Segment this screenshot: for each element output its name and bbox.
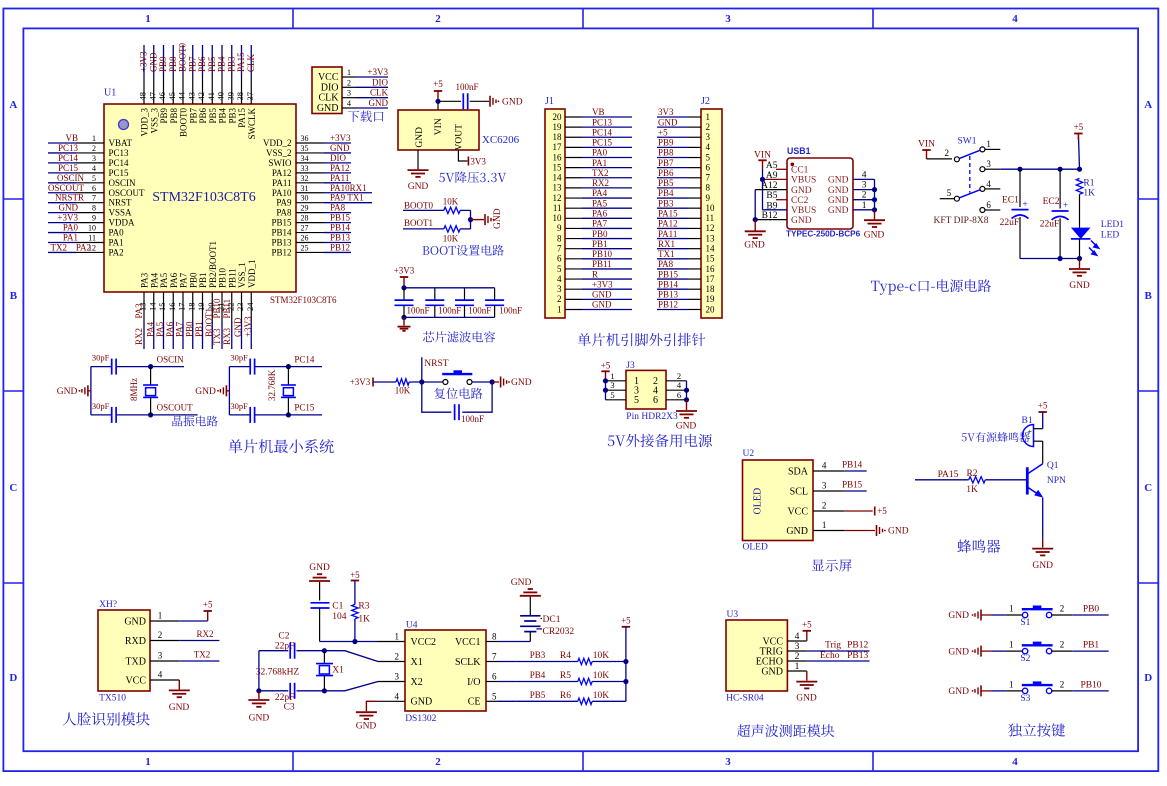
svg-text:LED: LED [1101,230,1120,240]
svg-text:+5: +5 [877,506,887,516]
svg-text:18: 18 [706,284,716,294]
svg-text:+5: +5 [203,600,213,610]
svg-text:PC14: PC14 [109,158,130,168]
svg-text:6: 6 [492,672,497,682]
svg-text:2: 2 [347,78,351,87]
svg-text:VDDA: VDDA [109,218,135,228]
svg-text:PB0: PB0 [184,321,194,337]
svg-text:1K: 1K [1083,188,1095,198]
svg-text:GND: GND [511,578,532,588]
svg-text:OLED: OLED [743,543,768,553]
svg-text:GND: GND [948,687,969,697]
svg-text:11: 11 [706,213,715,223]
svg-text:4: 4 [706,142,711,152]
svg-text:PC13: PC13 [109,148,130,158]
svg-text:GND: GND [330,143,350,153]
svg-text:TX510: TX510 [99,694,126,704]
svg-text:+5: +5 [601,361,611,371]
svg-text:26: 26 [301,234,309,243]
svg-text:2: 2 [557,294,562,304]
svg-text:GND: GND [233,317,243,337]
svg-text:30pF: 30pF [230,353,248,363]
svg-text:1: 1 [1009,640,1014,650]
svg-text:PB5: PB5 [207,56,217,72]
svg-text:+5: +5 [350,570,360,580]
svg-text:4: 4 [158,670,163,680]
svg-text:3: 3 [725,13,731,25]
svg-text:TX2: TX2 [51,242,68,252]
svg-text:3: 3 [822,481,827,491]
svg-text:RX1: RX1 [658,239,675,249]
svg-text:GND: GND [317,103,339,114]
svg-text:8MHz: 8MHz [129,378,139,401]
svg-text:U3: U3 [727,610,739,620]
svg-text:PB13: PB13 [658,290,679,300]
svg-text:GND: GND [744,241,765,251]
svg-text:10K: 10K [593,651,610,661]
svg-text:6: 6 [557,254,562,264]
svg-text:PB1: PB1 [1083,641,1100,651]
svg-text:GND: GND [658,117,678,127]
svg-text:1K: 1K [358,615,370,625]
svg-text:PB0: PB0 [188,272,198,288]
svg-text:30pF: 30pF [230,401,248,411]
svg-text:14: 14 [553,173,563,183]
svg-text:5: 5 [557,264,562,274]
svg-text:PB14: PB14 [658,279,679,289]
svg-text:PB11: PB11 [592,259,612,269]
svg-text:XC6206: XC6206 [482,134,520,146]
svg-text:+5: +5 [1038,401,1048,411]
svg-text:BOOT1: BOOT1 [404,218,433,228]
svg-text:PB15: PB15 [658,269,679,279]
svg-text:19: 19 [553,122,563,132]
svg-text:VOUT: VOUT [455,124,465,151]
svg-text:6: 6 [653,395,658,406]
svg-text:2: 2 [822,501,827,511]
svg-text:3: 3 [862,181,867,191]
svg-text:CC2: CC2 [791,196,809,206]
svg-text:U2: U2 [743,449,755,459]
svg-text:KFT DIP-8X8: KFT DIP-8X8 [934,216,989,226]
svg-text:VBAT: VBAT [109,138,133,148]
svg-text:GND: GND [1069,281,1090,291]
svg-text:XH?: XH? [99,600,117,610]
svg-text:6: 6 [986,200,991,210]
svg-text:PB10: PB10 [592,249,613,259]
svg-text:GND: GND [828,186,849,196]
svg-text:48: 48 [138,92,148,101]
svg-text:OSCIN: OSCIN [57,173,85,183]
svg-text:U1: U1 [104,88,116,99]
svg-text:NPN: NPN [1047,476,1066,486]
svg-text:2: 2 [1060,679,1065,689]
svg-text:4: 4 [1012,756,1018,768]
svg-text:C: C [1144,482,1152,494]
svg-text:30pF: 30pF [92,353,110,363]
svg-text:GND: GND [57,387,78,397]
svg-text:47: 47 [147,92,157,101]
svg-text:PB10: PB10 [218,267,228,288]
svg-text:24: 24 [245,302,255,311]
svg-text:PB5: PB5 [530,690,546,700]
svg-text:1: 1 [986,139,991,149]
svg-text:X2: X2 [411,677,423,688]
svg-text:DIO: DIO [330,153,346,163]
svg-text:DC1: DC1 [543,615,561,625]
svg-text:CR2032: CR2032 [543,627,575,637]
svg-text:S2: S2 [1020,654,1030,664]
svg-text:4: 4 [92,164,96,173]
svg-text:PA5: PA5 [159,272,169,288]
svg-text:RX3: RX3 [222,327,232,345]
svg-text:SW1: SW1 [958,137,977,147]
svg-text:VCC: VCC [787,506,808,517]
svg-text:CLK: CLK [246,53,256,72]
svg-text:PC14: PC14 [294,354,315,364]
svg-text:PB13: PB13 [330,233,351,243]
svg-text:10: 10 [706,203,716,213]
svg-text:100nF: 100nF [468,305,491,315]
svg-text:GND: GND [796,694,817,704]
svg-text:PA12: PA12 [272,168,292,178]
svg-text:40: 40 [216,92,226,101]
svg-text:VIN: VIN [434,118,444,135]
svg-text:VCC2: VCC2 [411,637,437,648]
svg-text:PC15: PC15 [294,403,315,413]
svg-text:GND: GND [888,527,909,537]
svg-text:7: 7 [92,194,96,203]
svg-text:PB12: PB12 [271,247,291,257]
svg-text:PA3: PA3 [140,272,150,288]
svg-text:+3V3: +3V3 [592,279,613,289]
svg-text:22uF: 22uF [1000,218,1020,228]
svg-text:PB3: PB3 [530,650,546,660]
svg-text:PA0: PA0 [63,223,79,233]
svg-text:22uF: 22uF [1040,220,1060,230]
svg-text:1: 1 [395,632,400,642]
svg-text:7: 7 [492,652,497,662]
svg-text:10K: 10K [395,386,411,396]
svg-text:4: 4 [395,691,400,701]
svg-text:41: 41 [206,92,216,101]
svg-text:15: 15 [553,162,563,172]
svg-text:PB15: PB15 [271,218,292,228]
svg-text:5: 5 [492,691,497,701]
svg-text:D: D [1144,672,1152,684]
svg-text:PC15: PC15 [109,168,130,178]
svg-text:GND: GND [761,666,783,677]
svg-text:11: 11 [88,234,96,243]
svg-text:30pF: 30pF [92,401,110,411]
svg-text:PA0: PA0 [592,148,608,158]
svg-text:GND: GND [676,422,697,432]
svg-text:GND: GND [408,182,429,192]
svg-text:4: 4 [557,274,562,284]
svg-text:PB6: PB6 [197,56,207,72]
svg-text:NRSTR: NRSTR [55,193,84,203]
svg-text:OSCOUT: OSCOUT [109,188,146,198]
svg-text:3V3: 3V3 [658,107,674,117]
svg-text:+3V3: +3V3 [330,133,351,143]
svg-text:GND: GND [828,176,849,186]
svg-text:PA5: PA5 [155,321,165,337]
svg-text:TX2: TX2 [592,168,609,178]
svg-text:GND: GND [493,208,503,229]
svg-text:PA9: PA9 [276,198,292,208]
svg-text:6: 6 [92,184,96,193]
svg-text:17: 17 [553,142,563,152]
svg-text:PC13: PC13 [58,143,79,153]
svg-text:+3V3: +3V3 [243,316,253,337]
svg-text:STM32F103C8T6: STM32F103C8T6 [152,190,255,205]
svg-text:PA6: PA6 [169,272,179,288]
svg-text:1: 1 [822,520,827,530]
svg-text:12: 12 [553,193,562,203]
svg-text:2: 2 [862,191,867,201]
svg-text:PB5: PB5 [208,108,218,124]
svg-text:+5: +5 [433,79,443,89]
svg-text:GND: GND [786,526,808,537]
svg-text:34: 34 [301,154,309,163]
svg-text:9: 9 [557,223,562,233]
svg-text:10K: 10K [443,234,459,244]
svg-text:45: 45 [167,92,177,101]
svg-text:GND: GND [195,387,216,397]
svg-text:37: 37 [245,92,255,101]
svg-text:PB12: PB12 [658,300,678,310]
svg-text:B: B [10,290,18,302]
svg-text:+5: +5 [802,620,812,630]
svg-text:SCL: SCL [790,486,808,497]
svg-text:29: 29 [301,204,309,213]
svg-text:+3V3: +3V3 [350,377,371,387]
svg-text:100nF: 100nF [438,305,461,315]
svg-text:PB4: PB4 [217,56,227,72]
svg-text:25: 25 [301,243,309,252]
svg-text:CE: CE [468,697,481,708]
svg-text:PB5: PB5 [658,178,674,188]
svg-text:GND: GND [828,206,849,216]
svg-text:PA8: PA8 [658,259,674,269]
svg-text:C3: C3 [284,702,295,712]
svg-text:20: 20 [553,112,563,122]
svg-text:PC14: PC14 [58,153,79,163]
svg-text:PA3: PA3 [134,303,144,319]
svg-text:R4: R4 [560,651,571,661]
svg-text:100nF: 100nF [461,414,484,424]
svg-text:BOOT0: BOOT0 [179,108,189,137]
svg-text:14: 14 [147,302,157,311]
svg-text:GND: GND [511,378,532,388]
svg-text:PB14: PB14 [330,223,351,233]
svg-text:10: 10 [553,213,563,223]
svg-text:+3V3: +3V3 [367,67,388,77]
svg-text:PB0: PB0 [1083,605,1100,615]
svg-text:3: 3 [557,284,562,294]
svg-text:14: 14 [706,243,716,253]
svg-text:7: 7 [557,243,562,253]
svg-text:PA7: PA7 [175,321,185,337]
svg-text:4: 4 [862,170,867,180]
svg-text:SWCLK: SWCLK [247,107,257,139]
svg-text:7: 7 [706,173,711,183]
svg-text:GND: GND [124,616,146,627]
svg-text:+5: +5 [621,616,631,626]
svg-text:GND: GND [249,714,270,724]
svg-text:Pin HDR2X3: Pin HDR2X3 [626,412,678,422]
svg-text:VBUS: VBUS [791,176,816,186]
svg-text:C2: C2 [278,631,289,641]
svg-text:PB2/BOOT1: PB2/BOOT1 [208,241,218,288]
svg-text:PB6: PB6 [658,168,674,178]
svg-text:VSSA: VSSA [109,208,133,218]
svg-text:32: 32 [301,174,309,183]
svg-text:28: 28 [301,214,309,223]
svg-text:PB7: PB7 [188,108,198,124]
svg-text:1K: 1K [966,485,978,495]
svg-text:GND: GND [356,722,377,732]
svg-text:3: 3 [706,132,711,142]
svg-text:PB6: PB6 [198,108,208,124]
svg-text:PB4: PB4 [658,188,674,198]
svg-text:RX2: RX2 [134,328,144,345]
svg-text:PB8: PB8 [168,56,178,72]
svg-text:6: 6 [677,390,681,400]
svg-text:30: 30 [301,194,309,203]
svg-text:PA12: PA12 [658,219,678,229]
svg-text:2: 2 [435,13,441,25]
svg-text:PB1: PB1 [592,239,608,249]
svg-text:VDD_2: VDD_2 [263,138,292,148]
svg-text:PA1: PA1 [63,233,78,243]
svg-text:PB8: PB8 [658,148,674,158]
svg-text:VSS_3: VSS_3 [149,108,159,134]
svg-text:S1: S1 [1020,618,1030,628]
svg-text:PC15: PC15 [58,163,79,173]
svg-text:VIN: VIN [754,150,771,160]
svg-text:5: 5 [634,395,639,406]
svg-text:GND: GND [369,98,389,108]
svg-text:20: 20 [706,304,716,314]
svg-text:+3V3: +3V3 [139,51,149,72]
svg-text:32.768kHZ: 32.768kHZ [256,667,300,677]
svg-text:16: 16 [167,303,177,312]
svg-text:2: 2 [945,148,950,158]
svg-text:5: 5 [947,188,952,198]
svg-text:27: 27 [301,224,309,233]
svg-text:R1: R1 [1083,179,1094,189]
svg-text:1: 1 [706,112,711,122]
svg-text:1: 1 [557,304,562,314]
svg-text:PB13: PB13 [847,651,868,661]
svg-text:VCC1: VCC1 [455,637,481,648]
svg-text:TXD: TXD [125,656,146,667]
svg-text:PA11: PA11 [272,178,291,188]
svg-text:R: R [592,269,598,279]
svg-text:1: 1 [145,756,151,768]
svg-text:A: A [1144,99,1152,111]
svg-text:GND: GND [415,127,425,148]
svg-text:PB15: PB15 [842,480,863,490]
svg-text:TX3: TX3 [212,328,222,345]
svg-text:OSCOUT: OSCOUT [48,183,85,193]
svg-text:VCC: VCC [125,675,146,686]
svg-text:GND: GND [1032,561,1053,571]
svg-text:PC13: PC13 [592,117,613,127]
svg-text:GND: GND [864,230,885,240]
svg-text:+5: +5 [1074,122,1084,132]
svg-text:PB3: PB3 [227,108,237,124]
svg-text:2: 2 [395,652,400,662]
svg-text:PA4: PA4 [149,272,159,288]
svg-text:2: 2 [92,144,96,153]
svg-text:10K: 10K [593,691,610,701]
svg-text:VSS_1: VSS_1 [237,262,247,288]
svg-text:11: 11 [553,203,562,213]
svg-text:2: 2 [435,756,441,768]
svg-text:PA11: PA11 [658,229,677,239]
svg-text:X1: X1 [411,657,423,668]
svg-text:GND: GND [411,697,433,708]
svg-text:PA8: PA8 [330,203,346,213]
svg-text:PB7: PB7 [187,56,197,72]
svg-text:9: 9 [92,214,96,223]
svg-text:Q1: Q1 [1047,461,1059,471]
svg-text:SDA: SDA [788,466,809,477]
svg-text:PA7: PA7 [592,219,608,229]
svg-text:13: 13 [706,233,716,243]
svg-text:PB9: PB9 [158,56,168,72]
svg-text:1: 1 [92,134,96,143]
svg-text:44: 44 [177,91,187,100]
svg-text:10K: 10K [443,197,459,207]
svg-text:PA12: PA12 [330,163,350,173]
svg-text:PA11: PA11 [330,173,349,183]
svg-text:3: 3 [92,154,96,163]
svg-text:1: 1 [1009,604,1014,614]
svg-text:PA6: PA6 [165,321,175,337]
svg-text:33: 33 [301,164,309,173]
svg-text:PA15: PA15 [658,209,678,219]
svg-text:3: 3 [395,672,400,682]
svg-text:S3: S3 [1020,694,1030,704]
svg-text:39: 39 [225,92,235,101]
svg-text:6: 6 [706,162,711,172]
svg-text:VB: VB [592,107,605,117]
svg-text:J3: J3 [626,361,635,371]
svg-text:13: 13 [553,183,563,193]
svg-text:104: 104 [332,612,347,622]
svg-text:PC15: PC15 [592,138,613,148]
svg-text:PB12: PB12 [847,641,868,651]
svg-text:4: 4 [822,461,827,471]
svg-text:8: 8 [557,233,562,243]
svg-text:46: 46 [157,92,167,101]
svg-text:J1: J1 [545,96,554,107]
svg-text:PA7: PA7 [179,272,189,288]
svg-text:4: 4 [347,99,351,108]
svg-text:GND: GND [59,203,79,213]
svg-text:Echo: Echo [820,651,840,661]
svg-text:31: 31 [301,184,309,193]
svg-text:GND: GND [592,300,612,310]
svg-text:PB12: PB12 [330,242,350,252]
svg-text:PB1: PB1 [194,321,204,337]
svg-text:PB11: PB11 [227,268,237,288]
svg-text:5: 5 [706,152,711,162]
svg-text:C: C [9,482,17,494]
